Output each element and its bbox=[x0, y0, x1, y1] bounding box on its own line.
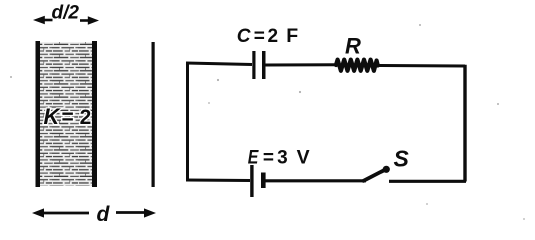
battery E long plate bbox=[250, 165, 253, 197]
svg-text:S: S bbox=[394, 145, 410, 171]
svg-text:d: d bbox=[97, 203, 111, 226]
svg-text:E: E bbox=[248, 147, 259, 169]
svg-text:K: K bbox=[44, 104, 62, 129]
capacitor C1 right plate bbox=[262, 51, 266, 79]
svg-text:C: C bbox=[237, 26, 251, 47]
capacitor plate (right) bbox=[152, 42, 155, 187]
wire: bottom-left segment to battery E bbox=[186, 179, 250, 183]
svg-text:R: R bbox=[345, 33, 361, 58]
dielectric right boundary line bbox=[92, 41, 97, 187]
wire: circuit right side bbox=[463, 65, 466, 182]
wire: battery E to switch S bbox=[266, 179, 367, 182]
svg-text:= 2: = 2 bbox=[62, 106, 92, 129]
svg-text:3: 3 bbox=[277, 148, 288, 169]
svg-text:V: V bbox=[297, 147, 310, 169]
scan noise specks bbox=[10, 24, 525, 220]
wire: switch S to bottom-right corner bbox=[389, 180, 466, 183]
battery E short plate bbox=[261, 173, 266, 189]
dielectric K=2 stippled slab bbox=[40, 42, 92, 186]
wire: circuit left side bbox=[186, 63, 189, 181]
svg-text:=: = bbox=[263, 148, 274, 169]
svg-text:2: 2 bbox=[268, 26, 279, 47]
switch S contact dot bbox=[383, 166, 390, 173]
svg-text:=: = bbox=[254, 26, 265, 47]
label d/2 dimension: left arrow bbox=[33, 16, 53, 25]
capacitor plate (left, with dielectric) bbox=[36, 41, 41, 187]
wire: top-left segment to capacitor C bbox=[186, 63, 252, 65]
switch S lever bbox=[364, 170, 386, 181]
svg-text:F: F bbox=[286, 25, 298, 47]
capacitor C1 left plate bbox=[252, 51, 255, 79]
label d dimension: right arrow bbox=[116, 208, 156, 217]
svg-text:d/2: d/2 bbox=[52, 2, 80, 23]
wire: resistor R to top-right corner bbox=[378, 64, 465, 68]
label d dimension: left arrow bbox=[32, 208, 89, 217]
label d/2 dimension: right arrow bbox=[80, 16, 99, 25]
wire: capacitor C to resistor R bbox=[265, 63, 336, 66]
resistor R zigzag bbox=[336, 60, 378, 71]
